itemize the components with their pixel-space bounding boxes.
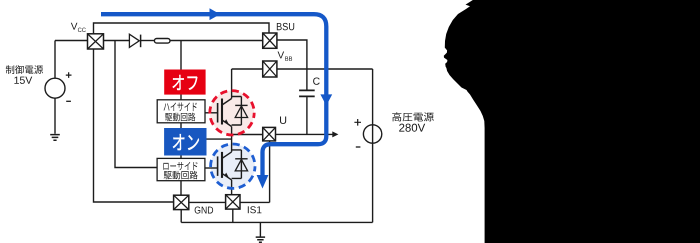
high-side highlight circle (red dashed): [210, 91, 254, 135]
wire high-side emitter to U: [231, 127, 233, 152]
wire junction drop through driver column: [180, 41, 182, 196]
wire BSU to bootstrap capacitor: [277, 40, 307, 90]
label U: [280, 116, 286, 124]
blue arrow (mid right): [320, 94, 332, 105]
label 15V: [14, 77, 32, 84]
low-side IGBT highlight fill: [211, 144, 255, 188]
terminal GND: [174, 195, 189, 209]
wire low-side emitter to IS1: [231, 180, 233, 195]
state label ON (blue box): [164, 128, 206, 156]
wire main rail left segment: [55, 40, 88, 42]
high-side IGBT highlight fill: [210, 91, 254, 135]
terminal VBB: [263, 61, 277, 77]
wire low-side gate: [205, 167, 218, 169]
low-side driver text line2: [164, 171, 198, 180]
wire VBB to high-side collector: [232, 68, 263, 70]
bootstrap current path (blue): [101, 14, 326, 177]
wire high-side gate: [205, 112, 218, 114]
label Vcc: [71, 23, 78, 30]
wire U output: [276, 133, 333, 135]
terminal U: [263, 127, 276, 140]
wire 15V source to ground: [54, 98, 56, 134]
black silhouette panel: [444, 0, 700, 243]
label Vbb: [278, 52, 285, 59]
wire GND terminal to bottom rail: [180, 210, 182, 223]
wire IS1 terminal to bottom rail: [232, 209, 234, 222]
high-side driver box: [157, 100, 205, 123]
label control supply: [6, 65, 43, 74]
plus sign 280V: [354, 119, 361, 126]
state label ON text: [173, 134, 200, 151]
wire U box down to IS1 wire: [269, 141, 271, 203]
ground (power stage): [256, 237, 265, 242]
wire capacitor to U node: [306, 97, 308, 134]
transistor Q1 (high-side IGBT): [218, 97, 248, 127]
low-side highlight circle (blue dashed): [211, 144, 255, 188]
wire bottom rail ground stub: [259, 222, 261, 236]
wire resistor to BSU: [170, 40, 263, 42]
capacitor C plates: [299, 90, 315, 96]
label HV supply: [392, 112, 434, 121]
minus sign 280V: [356, 146, 361, 148]
diode D1: [129, 34, 140, 47]
label 280V: [399, 124, 425, 132]
resistor R1: [154, 39, 170, 44]
label C: [313, 77, 320, 84]
label GND: [195, 207, 213, 214]
wire junction drop to low-side driver: [115, 41, 157, 168]
wire GND to IS1: [189, 201, 226, 203]
label Vbb subscript: [285, 56, 292, 60]
arrow U output: [332, 131, 338, 137]
wire Vcc-box to diode: [104, 40, 130, 42]
ground (control supply): [50, 135, 60, 141]
minus sign 15V: [66, 100, 71, 102]
wire bottom rail: [181, 221, 372, 223]
blue arrow (top): [210, 8, 221, 20]
voltage source V2 (280V): [363, 125, 381, 143]
transistor Q2 (low-side IGBT): [218, 150, 248, 180]
wire Vcc bottom to GND terminal: [94, 49, 174, 202]
label IS1: [248, 206, 262, 213]
low-side driver box: [157, 158, 205, 180]
wire left column to 15V source: [54, 41, 56, 79]
wire phase column to U terminal: [232, 134, 263, 136]
high-side driver text line2: [165, 113, 195, 122]
wire diode to resistor: [141, 40, 154, 42]
plus sign 15V: [66, 72, 72, 78]
state label OFF text: [172, 75, 197, 90]
terminal BSU: [263, 33, 277, 48]
high-side driver text line1: [164, 103, 197, 112]
terminal IS1: [226, 195, 240, 209]
label Vcc subscript: [78, 28, 86, 32]
wire high-side collector: [231, 69, 233, 99]
voltage source V1 (15V): [45, 78, 65, 98]
wire VBB to HV bus: [277, 68, 373, 70]
state label OFF (red box): [164, 70, 205, 95]
wire on-box to phase column: [207, 138, 232, 140]
wire HV bus vertical: [372, 69, 374, 222]
blue arrow (low-side end): [257, 175, 269, 189]
label BSU: [277, 23, 294, 30]
wire Vcc-top to BSU-top: [94, 23, 270, 34]
low-side driver text line1: [163, 162, 197, 170]
wire IS1 to U-down junction: [240, 201, 270, 203]
terminal VCC: [88, 34, 104, 49]
